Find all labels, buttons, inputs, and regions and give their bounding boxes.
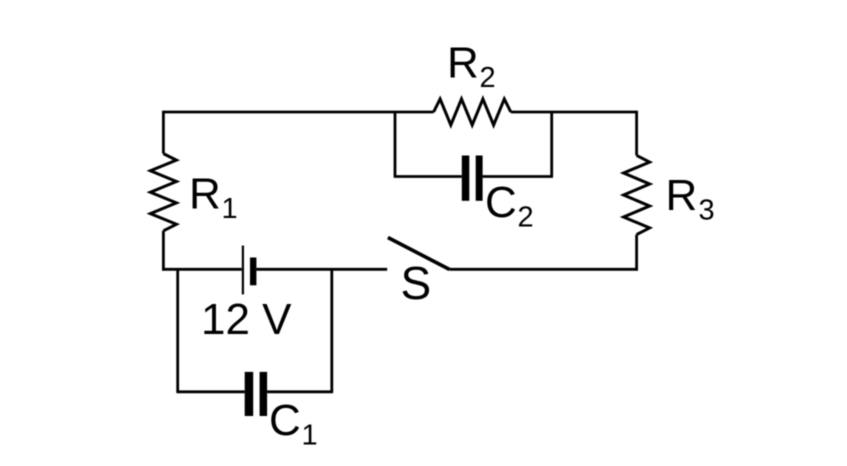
wire left vertical upper <box>162 111 165 154</box>
svg-text:1: 1 <box>222 193 238 225</box>
label 12 V <box>201 295 292 344</box>
wire middle center <box>256 268 387 271</box>
capacitor C2 <box>462 156 483 201</box>
switch S blade <box>388 238 450 270</box>
svg-text:3: 3 <box>699 195 715 227</box>
svg-text:1: 1 <box>302 420 318 452</box>
wire left vertical lower <box>162 231 165 271</box>
wire bottom loop right vertical <box>330 269 333 392</box>
svg-text:C: C <box>485 178 517 227</box>
wire top right segment <box>511 111 637 114</box>
label S <box>401 257 432 309</box>
svg-text:2: 2 <box>518 202 534 234</box>
label R3 <box>666 171 715 227</box>
battery 12 V <box>243 246 257 295</box>
wire bottom left segment <box>176 390 244 393</box>
wire middle left <box>162 268 242 271</box>
node B: C2 branch right junction <box>550 112 553 177</box>
wire bottom loop left vertical <box>176 269 179 392</box>
wire C2 bottom left <box>394 175 462 178</box>
wire bottom right segment <box>267 390 333 393</box>
wire right vertical lower <box>635 235 638 271</box>
wire right vertical upper <box>635 111 638 156</box>
svg-text:R: R <box>447 39 479 88</box>
capacitor C1 <box>245 372 267 416</box>
svg-text:R: R <box>666 171 698 220</box>
resistor R1 <box>150 154 176 231</box>
label R2 <box>447 39 496 95</box>
wire middle right <box>450 268 638 271</box>
wire top left segment <box>163 111 433 114</box>
svg-text:12 V: 12 V <box>201 295 292 344</box>
resistor R3 <box>624 155 650 234</box>
label C2 <box>485 178 534 234</box>
svg-text:C: C <box>269 396 301 445</box>
resistor R2 <box>434 99 511 125</box>
node A: C2 branch left junction <box>394 112 397 177</box>
svg-text:2: 2 <box>480 62 496 94</box>
wire C2 bottom right <box>483 175 553 178</box>
label R1 <box>189 169 238 225</box>
label C1 <box>269 396 318 452</box>
svg-text:R: R <box>189 169 221 218</box>
svg-text:S: S <box>401 257 432 309</box>
